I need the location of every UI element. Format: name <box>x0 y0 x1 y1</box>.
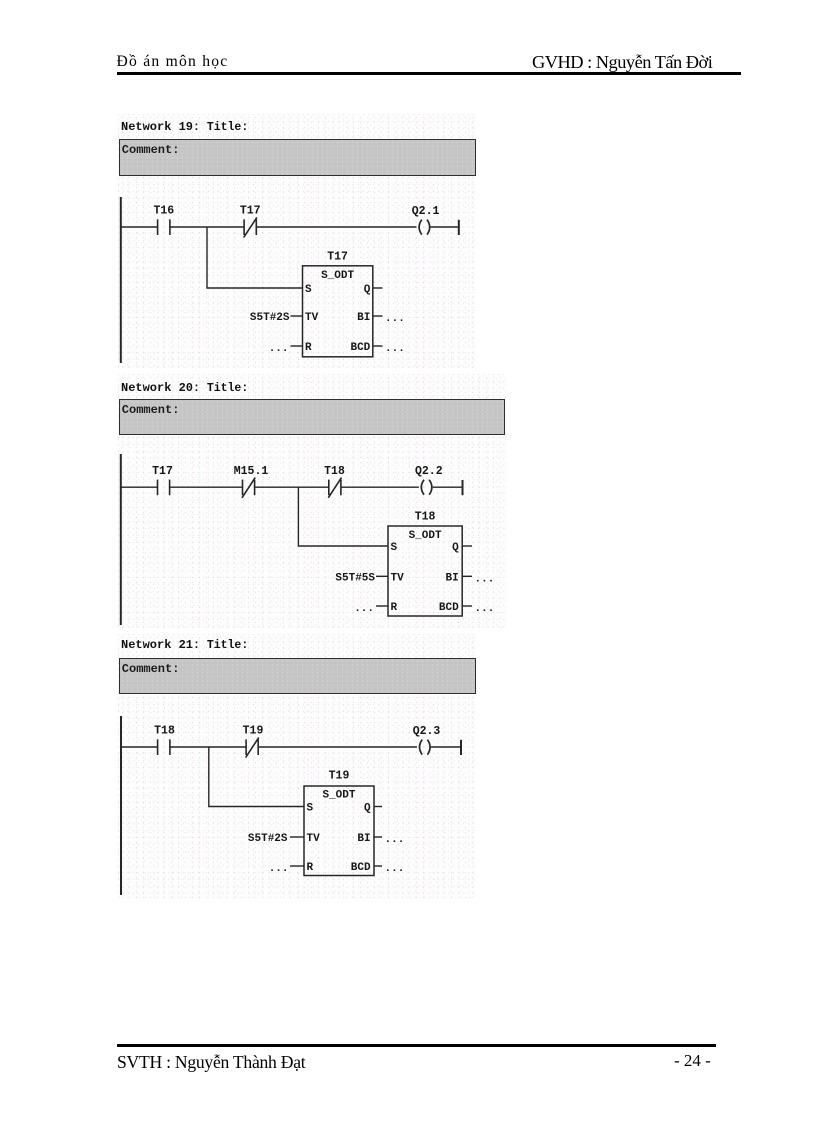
wire R input N19 <box>291 345 303 347</box>
svg-text:BI: BI <box>445 573 458 585</box>
svg-text:T19: T19 <box>329 769 350 782</box>
svg-text:...: ... <box>354 603 374 615</box>
coil Q2.1 <box>419 220 430 235</box>
svg-text:Q2.2: Q2.2 <box>415 465 443 478</box>
svg-text:BCD: BCD <box>350 342 370 354</box>
value ... (BCD output) <box>385 343 405 355</box>
wire branch N20 <box>298 487 388 546</box>
svg-text:...: ... <box>475 573 495 585</box>
label Q2.2 <box>415 465 443 478</box>
label T17 (box) <box>327 251 348 264</box>
label S_ODT <box>321 270 354 282</box>
svg-text:R: R <box>305 342 312 354</box>
pin TV <box>305 312 319 324</box>
pin TV (N21) <box>307 833 321 845</box>
contact T17 (N20) <box>158 480 170 496</box>
svg-text:S: S <box>307 803 314 815</box>
label T16 <box>153 205 174 218</box>
label T17 (N20) <box>152 465 173 478</box>
svg-text:...: ... <box>475 603 495 615</box>
comment box N21 <box>119 658 476 694</box>
label T19 <box>243 725 264 738</box>
label S_ODT (N20) <box>409 530 442 542</box>
comment box N19 <box>119 139 476 176</box>
pin Q <box>364 284 371 296</box>
svg-text:S_ODT: S_ODT <box>321 270 354 282</box>
svg-text:Q: Q <box>364 803 371 815</box>
svg-text:T18: T18 <box>415 511 436 524</box>
svg-text:Q: Q <box>364 284 371 296</box>
value S5T#5S <box>335 573 375 585</box>
svg-text:BI: BI <box>357 833 370 845</box>
label M15.1 <box>234 465 269 478</box>
coil Q2.3 <box>420 740 431 755</box>
pin R (N21) <box>307 862 314 874</box>
wire rung N21 <box>120 746 461 748</box>
svg-text:Q: Q <box>452 542 459 554</box>
svg-text:TV: TV <box>307 833 321 845</box>
label T18 (box) <box>415 511 436 524</box>
label T19 (box) <box>329 769 350 782</box>
label Q2.1 <box>412 205 440 218</box>
contact T18 (NC, N20) <box>328 478 341 498</box>
wire BCD output N19 <box>373 345 383 347</box>
svg-text:S5T#2S: S5T#2S <box>250 312 290 324</box>
svg-text:T17: T17 <box>152 465 173 478</box>
wire BI output N20 <box>462 575 472 577</box>
value S5T#2S (N21) <box>248 833 288 845</box>
wire R input N20 <box>376 605 388 607</box>
screenshot background N21 <box>118 634 477 899</box>
svg-text:TV: TV <box>305 312 319 324</box>
timer T18 S_ODT box <box>388 526 462 616</box>
wire R input N21 <box>290 865 304 867</box>
header rule <box>117 72 741 75</box>
pin S (N20) <box>391 542 398 554</box>
svg-text:...: ... <box>385 834 405 846</box>
right rail tick N19 <box>458 220 460 235</box>
value ... (BI output) <box>385 313 405 325</box>
wire TV input N19 <box>291 315 303 317</box>
footer left text <box>117 1052 305 1073</box>
contact T16 <box>158 219 170 235</box>
timer T17 S_ODT box <box>303 266 373 357</box>
svg-text:T17: T17 <box>240 205 261 218</box>
value ... (BI output N21) <box>385 834 405 846</box>
screenshot background N20 <box>118 374 506 628</box>
svg-text:T16: T16 <box>153 205 174 218</box>
svg-text:T18: T18 <box>324 465 345 478</box>
value ... (BI output N20) <box>475 573 495 585</box>
pin S <box>305 284 312 296</box>
svg-text:...: ... <box>385 343 405 355</box>
screenshot background N19 <box>118 114 477 368</box>
network 21 title <box>121 638 248 652</box>
comment box N20 <box>119 399 505 435</box>
wire BI output N19 <box>373 315 383 317</box>
svg-text:Q2.3: Q2.3 <box>413 725 441 738</box>
svg-text:BI: BI <box>357 312 370 324</box>
value ... (BCD output N21) <box>385 863 405 875</box>
svg-text:T19: T19 <box>243 725 264 738</box>
wire BCD output N20 <box>462 605 472 607</box>
wire TV input N20 <box>376 575 388 577</box>
svg-text:S5T#2S: S5T#2S <box>248 833 288 845</box>
pin TV (N20) <box>391 573 405 585</box>
svg-text:S_ODT: S_ODT <box>322 790 355 802</box>
value ... (R input N21) <box>269 863 289 875</box>
svg-text:TV: TV <box>391 573 405 585</box>
wire rung N20 <box>120 486 463 488</box>
right rail tick N21 <box>460 740 462 755</box>
svg-text:...: ... <box>269 343 289 355</box>
svg-text:S_ODT: S_ODT <box>409 530 442 542</box>
network 20 title <box>121 381 248 395</box>
svg-text:S5T#5S: S5T#5S <box>335 573 375 585</box>
svg-text:Q2.1: Q2.1 <box>412 205 440 218</box>
svg-text:...: ... <box>269 863 289 875</box>
svg-text:S: S <box>391 542 398 554</box>
value ... (BCD output N20) <box>475 603 495 615</box>
footer right page number <box>674 1051 711 1071</box>
svg-text:...: ... <box>385 863 405 875</box>
right rail tick N20 <box>462 480 464 495</box>
header right text <box>532 52 712 73</box>
svg-text:T17: T17 <box>327 251 348 264</box>
wire branch N21 <box>209 747 304 807</box>
contact T19 (NC) <box>246 737 259 757</box>
wire rung N19 <box>120 226 459 228</box>
label T18 (N21) <box>154 725 175 738</box>
wire Q output N19 <box>373 287 383 289</box>
label S_ODT (N21) <box>322 790 355 802</box>
header left text <box>117 52 229 71</box>
pin BCD (N20) <box>439 602 459 614</box>
svg-text:S: S <box>305 284 312 296</box>
timer T19 S_ODT box <box>304 786 374 876</box>
wire TV input N21 <box>290 836 304 838</box>
pin Q (N21) <box>364 803 371 815</box>
pin R <box>305 342 312 354</box>
wire BCD output N21 <box>374 865 382 867</box>
power rail N21 <box>120 716 122 895</box>
pin R (N20) <box>391 602 398 614</box>
coil Q2.2 <box>421 480 432 495</box>
power rail N19 <box>120 197 122 363</box>
pin Q (N20) <box>452 542 459 554</box>
label T17 <box>240 205 261 218</box>
footer rule <box>117 1044 716 1047</box>
value ... (R input) <box>269 343 289 355</box>
pin BCD <box>350 342 370 354</box>
wire branch N19 <box>207 227 303 288</box>
label Q2.3 <box>413 725 441 738</box>
pin BCD (N21) <box>351 862 371 874</box>
label T18 (N20) <box>324 465 345 478</box>
wire Q output N20 <box>462 545 472 547</box>
svg-text:...: ... <box>385 313 405 325</box>
power rail N20 <box>120 454 122 625</box>
svg-text:R: R <box>391 602 398 614</box>
pin BI <box>357 312 370 324</box>
contact M15.1 (NC) <box>242 478 255 498</box>
wire Q output N21 <box>374 806 382 808</box>
value ... (R input N20) <box>354 603 374 615</box>
svg-text:M15.1: M15.1 <box>234 465 269 478</box>
svg-text:R: R <box>307 862 314 874</box>
pin BI (N20) <box>445 573 458 585</box>
svg-text:BCD: BCD <box>439 602 459 614</box>
svg-text:T18: T18 <box>154 725 175 738</box>
contact T17 (NC) <box>244 217 257 237</box>
pin S (N21) <box>307 803 314 815</box>
svg-text:BCD: BCD <box>351 862 371 874</box>
contact T18 (N21) <box>158 739 170 755</box>
pin BI (N21) <box>357 833 370 845</box>
network 19 title <box>121 120 248 134</box>
wire BI output N21 <box>374 836 382 838</box>
value S5T#2S <box>250 312 290 324</box>
